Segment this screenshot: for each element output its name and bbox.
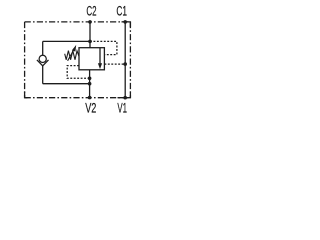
junction dot: V2 at boundary	[88, 96, 92, 100]
junction dot: check branch junction	[88, 82, 92, 86]
wire: down to check valve inlet	[42, 41, 44, 55]
junction dot: C2 at boundary	[88, 20, 92, 24]
junction dot: V1 at boundary	[123, 96, 127, 100]
wire: V2 line from relief valve bottom to border	[89, 70, 91, 98]
wire: C2 port line down to junction	[89, 22, 91, 42]
svg-text:V1: V1	[117, 101, 127, 116]
pilot line (dashed): from relief valve left side down to V2 line	[67, 66, 89, 79]
relief valve internal flow path with arrow	[98, 48, 102, 69]
junction dot: C1 at boundary	[123, 20, 127, 24]
enclosure boundary (dash-dot box)	[25, 22, 131, 98]
adjustment arrow through spring	[68, 45, 77, 61]
wire: check valve branch bottom run to V2 line	[43, 83, 90, 85]
relief valve envelope U1	[79, 48, 104, 70]
svg-text:C2: C2	[86, 4, 96, 19]
pilot line (dashed): from C1 line to relief valve right side	[104, 63, 125, 65]
junction dot: C1 pilot tap	[123, 62, 127, 66]
junction dot: V2 pilot junction	[88, 77, 92, 81]
svg-text:V2: V2	[85, 101, 96, 116]
pilot line (dashed): from C2 junction around to relief valve right side	[90, 41, 117, 54]
svg-text:C1: C1	[116, 4, 127, 19]
wire: check valve outlet down	[42, 65, 44, 84]
wire: junction to check valve branch (left run)	[43, 40, 90, 42]
wire: C1-V1 through line	[124, 22, 126, 98]
enclosure boundary corner patches (solid bits as in scan)	[25, 22, 131, 98]
spring (adjustable) on relief valve	[65, 51, 79, 60]
junction dot: C2 pilot junction	[88, 40, 92, 44]
wire: C2 junction down into relief valve top	[89, 41, 91, 47]
check valve CV1 (ball in seat)	[37, 55, 49, 66]
